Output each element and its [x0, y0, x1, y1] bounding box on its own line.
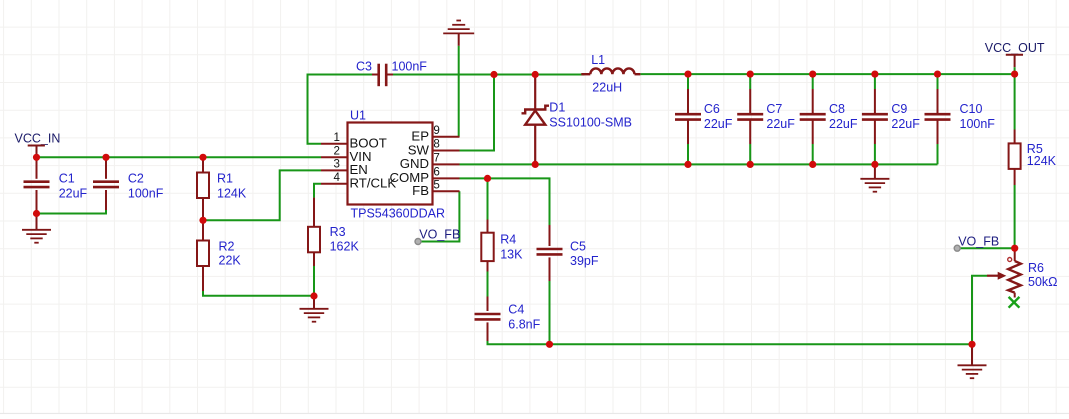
pin 6 stub [433, 177, 460, 179]
svg-text:9: 9 [433, 124, 439, 137]
svg-text:FB: FB [412, 183, 429, 198]
wire R2 bottom to ground rail [203, 290, 314, 296]
wire BOOT net pin1 to C3 [308, 75, 375, 144]
svg-text:GND: GND [400, 156, 429, 171]
C5 value label [570, 254, 599, 268]
diode D1 [522, 75, 550, 165]
C6 value label [704, 117, 733, 131]
svg-text:4: 4 [334, 171, 341, 184]
pin 1 stub [321, 143, 348, 145]
svg-text:6.8nF: 6.8nF [508, 317, 540, 331]
svg-text:3: 3 [334, 158, 340, 171]
resistor R1 [197, 157, 209, 220]
svg-text:L1: L1 [591, 53, 605, 67]
wire VIN rail [37, 156, 322, 158]
junction VIN rail / C2 [102, 154, 109, 161]
net port VO_FB right [954, 234, 999, 251]
capacitor C9 [862, 89, 888, 144]
R6 value label [1028, 275, 1058, 289]
C2 reference label [128, 171, 144, 185]
svg-text:U1: U1 [350, 109, 366, 123]
C9 value label [891, 117, 920, 131]
wire R4 to C4 [487, 272, 489, 297]
junction C1-C2 ground node [33, 210, 40, 217]
wire FB net to VO_FB port [418, 191, 459, 241]
svg-text:VCC_OUT: VCC_OUT [985, 41, 1045, 55]
R5 value label [1027, 154, 1057, 168]
svg-text:22uF: 22uF [59, 186, 88, 200]
junction R2-R3 ground node [310, 292, 317, 299]
inductor L1 [581, 68, 640, 74]
L1 value label [592, 81, 622, 95]
C8 reference label [829, 102, 845, 116]
ground top flipped [443, 21, 474, 46]
pin 3 stub [321, 169, 348, 171]
pin 7 stub [433, 163, 460, 165]
junction C8 top [809, 71, 816, 78]
resistor R3 [308, 198, 320, 266]
svg-text:C7: C7 [766, 102, 782, 116]
junction VCC_IN rail / C1 [33, 154, 40, 161]
R5 reference label [1027, 142, 1043, 156]
resistor R2 [197, 220, 209, 291]
svg-text:5: 5 [433, 178, 439, 191]
junction C5 on feedback rail [546, 341, 553, 348]
svg-text:39pF: 39pF [570, 254, 599, 268]
ground bottom right [958, 344, 987, 378]
svg-text:22uF: 22uF [891, 117, 920, 131]
IC U1 body [348, 123, 433, 205]
C10 value label [960, 117, 996, 131]
svg-text:D1: D1 [549, 101, 565, 115]
wire C6 connections [687, 74, 689, 164]
junction D1 top on SW rail [532, 71, 539, 78]
pin 2 stub [321, 156, 348, 158]
svg-text:100nF: 100nF [960, 117, 996, 131]
C6 reference label [704, 102, 720, 116]
wire R3 top to pin4 [314, 184, 321, 198]
junction C6 bottom [684, 161, 691, 168]
C3 value label [392, 60, 428, 74]
svg-text:13K: 13K [500, 247, 523, 261]
capacitor C2 [93, 157, 119, 210]
wire R6 wiper to bottom rail [972, 276, 987, 345]
potentiometer R6 [987, 248, 1021, 297]
svg-text:124K: 124K [1027, 154, 1057, 168]
svg-text:22uF: 22uF [829, 117, 858, 131]
R1 value label [217, 186, 247, 200]
pin 8 stub [433, 150, 460, 152]
svg-text:162K: 162K [330, 240, 360, 254]
pin 9 stub [433, 136, 460, 138]
wire C5 bottom drop [549, 281, 551, 344]
svg-text:R3: R3 [330, 225, 346, 239]
ground under C1 [22, 214, 51, 243]
R2 value label [219, 253, 242, 267]
svg-text:7: 7 [433, 152, 439, 165]
capacitor C10 [925, 89, 951, 144]
wire VO_FB right port [957, 247, 1015, 249]
wire C3 right to SW node [391, 74, 585, 76]
capacitor C8 [800, 89, 826, 144]
wire COMP to R4 top [487, 178, 489, 219]
C1 reference label [59, 171, 75, 185]
wire C7 connections [749, 74, 751, 164]
junction SW riser on BOOT rail [490, 71, 497, 78]
wire GND rail from pin7 [460, 163, 938, 165]
R2 reference label [219, 240, 235, 254]
junction COMP / R4 [484, 175, 491, 182]
R4 value label [500, 247, 523, 261]
wire C10 connections [937, 74, 939, 164]
C9 reference label [891, 102, 907, 116]
svg-text:R2: R2 [219, 240, 235, 254]
svg-text:C5: C5 [570, 239, 586, 253]
svg-text:C3: C3 [356, 60, 372, 74]
svg-text:C10: C10 [960, 102, 983, 116]
wire SW pin8 riser [460, 75, 495, 151]
svg-text:1: 1 [334, 131, 340, 144]
svg-text:SS10100-SMB: SS10100-SMB [549, 116, 632, 130]
capacitor C5 [537, 225, 563, 281]
svg-text:22uF: 22uF [704, 117, 733, 131]
svg-text:SW: SW [408, 142, 430, 157]
junction C7 bottom [747, 161, 754, 168]
C2 value label [128, 186, 164, 200]
R3 value label [330, 240, 360, 254]
pin 4 stub [321, 183, 348, 185]
wire R3 bottom segment [313, 266, 315, 296]
wire bottom feedback rail [488, 341, 973, 344]
junction wiper ground node [968, 341, 975, 348]
sheet boundary [0, 414, 1069, 419]
svg-text:C2: C2 [128, 171, 144, 185]
wire C1-C2 bottom [37, 210, 107, 214]
net flag VCC_OUT [985, 41, 1045, 74]
junction C8 bottom [809, 161, 816, 168]
no-connect X flag on R6 [1009, 297, 1020, 308]
C8 value label [829, 117, 858, 131]
svg-text:22uF: 22uF [766, 117, 795, 131]
R6 reference label [1028, 261, 1044, 275]
svg-text:VO_FB: VO_FB [419, 228, 460, 242]
capacitor C1 [24, 157, 50, 213]
wire C8 connections [812, 74, 814, 164]
D1 value label [549, 116, 632, 130]
C10 reference label [960, 102, 983, 116]
net flag VCC_IN [15, 131, 61, 157]
svg-text:6: 6 [433, 166, 439, 179]
svg-text:100nF: 100nF [392, 60, 428, 74]
svg-text:22uH: 22uH [592, 81, 622, 95]
svg-text:C8: C8 [829, 102, 845, 116]
svg-text:R4: R4 [500, 233, 516, 247]
U1 reference label [350, 109, 366, 123]
svg-text:C6: C6 [704, 102, 720, 116]
ground under C9 [860, 164, 889, 191]
junction C9 top [871, 71, 878, 78]
wire COMP net [460, 178, 550, 225]
resistor R5 [1009, 130, 1021, 186]
junction VIN rail / R1 [199, 154, 206, 161]
svg-text:100nF: 100nF [128, 186, 164, 200]
junction VCC_OUT node [1011, 71, 1018, 78]
net port VO_FB left [415, 228, 460, 245]
junction R1-R2 / EN [199, 217, 206, 224]
capacitor C4 [475, 297, 501, 342]
U1 value label TPS54360DDAR [351, 207, 446, 221]
svg-text:C4: C4 [508, 302, 524, 316]
junction C9 bottom / ground [871, 161, 878, 168]
svg-text:VCC_IN: VCC_IN [15, 131, 61, 145]
svg-text:124K: 124K [217, 186, 247, 200]
capacitor C7 [737, 89, 763, 144]
svg-text:EP: EP [411, 129, 429, 144]
C7 value label [766, 117, 795, 131]
svg-text:C9: C9 [891, 102, 907, 116]
C4 value label [508, 317, 540, 331]
svg-text:R1: R1 [217, 171, 233, 185]
capacitor C6 [675, 89, 701, 144]
junction C7 top [747, 71, 754, 78]
wire L1 to VCC_OUT rail [640, 73, 1014, 75]
wire top ground to EP pin9 [458, 46, 460, 137]
R3 reference label [330, 225, 346, 239]
R4 reference label [500, 233, 516, 247]
svg-text:VO_FB: VO_FB [958, 234, 999, 248]
R1 reference label [217, 171, 233, 185]
wire EN net R1-R2 to pin3 [203, 170, 321, 220]
svg-text:R6: R6 [1028, 261, 1044, 275]
C1 value label [59, 186, 88, 200]
svg-text:C1: C1 [59, 171, 75, 185]
ground under R2/R3 [300, 296, 329, 322]
C5 reference label [570, 239, 586, 253]
junction R5 / R6 / VO_FB [1011, 245, 1018, 252]
C3 reference label [356, 60, 372, 74]
svg-text:50kΩ: 50kΩ [1028, 275, 1058, 289]
junction C10 top [934, 71, 941, 78]
wire C9 connections [874, 74, 876, 164]
junction D1 bottom on GND rail [532, 161, 539, 168]
L1 reference label [591, 53, 605, 67]
svg-text:8: 8 [433, 138, 439, 151]
svg-text:TPS54360DDAR: TPS54360DDAR [351, 207, 446, 221]
capacitor C3 [372, 64, 393, 86]
pin 5 stub [433, 190, 460, 192]
D1 reference label [549, 101, 565, 115]
svg-text:2: 2 [334, 145, 340, 158]
resistor R4 [481, 220, 493, 272]
svg-text:22K: 22K [219, 253, 242, 267]
C4 reference label [508, 302, 524, 316]
C7 reference label [766, 102, 782, 116]
junction C6 top [684, 71, 691, 78]
wire R5 connections [1014, 74, 1016, 248]
